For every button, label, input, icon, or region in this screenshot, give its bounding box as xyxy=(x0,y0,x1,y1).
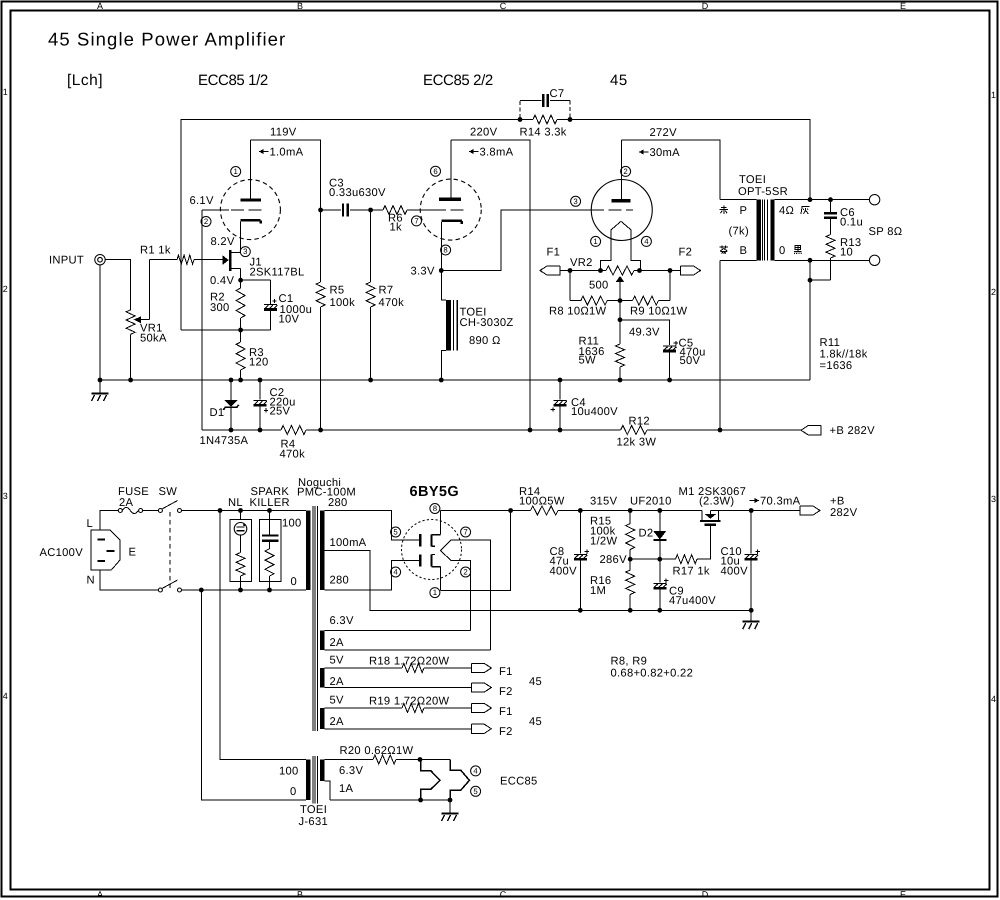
wire heater top xyxy=(420,759,450,761)
svg-text:8: 8 xyxy=(443,246,447,255)
ECC85 heater inner chevron xyxy=(421,760,440,801)
wire input jack to VR1 top xyxy=(105,260,130,310)
neon lamp NL box xyxy=(240,511,242,520)
svg-text:P: P xyxy=(740,205,748,217)
svg-text:100k: 100k xyxy=(330,297,356,309)
transformer T2 6.3V winding xyxy=(320,631,324,651)
label cha B (brown primary lead) xyxy=(720,246,729,248)
svg-text:=1636: =1636 xyxy=(820,360,853,372)
svg-text:300: 300 xyxy=(210,302,230,314)
wire rail C8 to R15 xyxy=(580,510,630,512)
svg-text:F1: F1 xyxy=(547,247,561,259)
wire V2 cathode to V3 grid xyxy=(441,210,591,271)
transformer T2 5V winding 2 xyxy=(320,708,324,729)
wire N bus xyxy=(182,589,306,591)
junction R13 loop xyxy=(808,278,813,283)
svg-text:1.0mA: 1.0mA xyxy=(270,147,304,159)
svg-text:R8, R9: R8, R9 xyxy=(611,656,648,668)
junction VR2 right xyxy=(637,268,642,273)
pin 1 of V3 xyxy=(591,236,601,246)
junction NFB-R14 left xyxy=(518,117,523,122)
svg-text:R17 1k: R17 1k xyxy=(673,566,710,578)
junction D2 top xyxy=(657,508,662,513)
resistor R7 470k xyxy=(370,210,372,282)
transformer T3 J-631 primary xyxy=(306,760,311,801)
svg-text:F2: F2 xyxy=(499,686,513,698)
svg-text:SW: SW xyxy=(159,486,178,498)
svg-text:8: 8 xyxy=(433,504,437,513)
pin 6 of V2 xyxy=(431,166,441,176)
resistor R15 100k xyxy=(629,511,631,524)
svg-text:49.3V: 49.3V xyxy=(629,327,660,339)
tube V4 lower anode xyxy=(419,555,421,567)
resistor R3 120 xyxy=(240,330,242,342)
svg-text:F1: F1 xyxy=(499,666,513,678)
pin 8 of V2 xyxy=(441,245,451,255)
svg-text:3: 3 xyxy=(243,247,247,256)
junction SK top xyxy=(267,508,272,513)
svg-text:CH-3030Z: CH-3030Z xyxy=(460,317,514,329)
wire pin8 lead xyxy=(440,511,442,535)
junction C5 bottom xyxy=(667,378,672,383)
svg-text:286V: 286V xyxy=(600,554,628,566)
svg-text:R19 1.72Ω20W: R19 1.72Ω20W xyxy=(369,696,450,708)
wire NFB to R2/C1 bottom xyxy=(181,329,271,331)
wire VR2 to F2 xyxy=(640,270,671,272)
svg-text:25V: 25V xyxy=(270,406,291,418)
junction C10 bottom xyxy=(749,608,754,613)
svg-text:ECC85 1/2: ECC85 1/2 xyxy=(198,72,268,89)
node 0.4V xyxy=(238,278,243,283)
wire filament left leg xyxy=(601,230,611,271)
plus mark C2 xyxy=(264,409,268,411)
svg-text:400V: 400V xyxy=(721,566,749,578)
node 286V xyxy=(628,557,633,562)
junction VR1-ground xyxy=(128,378,133,383)
svg-text:1N4735A: 1N4735A xyxy=(200,435,249,447)
svg-text:70.3mA: 70.3mA xyxy=(760,496,801,508)
svg-text:100: 100 xyxy=(279,766,299,778)
transformer T3 secondary xyxy=(320,760,324,782)
svg-text:1: 1 xyxy=(433,588,437,597)
neon lamp NL xyxy=(234,523,247,536)
svg-text:282V: 282V xyxy=(830,507,858,519)
wire source node to C1 xyxy=(241,279,271,281)
capacitor C3 0.33u xyxy=(321,209,341,211)
wire N feed to J631 xyxy=(201,590,305,800)
svg-text:R11: R11 xyxy=(820,337,841,349)
NFB wire left vertical xyxy=(181,120,520,331)
svg-text:30mA: 30mA xyxy=(650,147,681,159)
svg-text:E: E xyxy=(900,1,906,11)
svg-text:45: 45 xyxy=(610,72,628,89)
svg-text:3: 3 xyxy=(3,491,8,501)
resistor R9 10ohm xyxy=(620,300,633,302)
wire HV bottom tap to pin4 xyxy=(324,560,420,590)
svg-text:J-631: J-631 xyxy=(299,816,329,828)
tube V2 plate xyxy=(439,198,461,201)
svg-text:C: C xyxy=(500,1,507,11)
tube V1 grid xyxy=(202,209,229,211)
wire fuse to switch xyxy=(143,510,159,512)
junction C2 bottom xyxy=(258,428,263,433)
svg-text:7: 7 xyxy=(414,217,418,226)
ground symbol PSU xyxy=(750,610,752,621)
svg-text:272V: 272V xyxy=(650,127,678,139)
svg-text:2: 2 xyxy=(204,217,208,226)
junction pin1-pin8 xyxy=(508,508,513,513)
svg-text:6: 6 xyxy=(433,167,437,176)
AC inlet body xyxy=(91,530,120,570)
svg-text:50kA: 50kA xyxy=(140,333,167,345)
junction C10 top xyxy=(749,508,754,513)
diode D2 UF2010 xyxy=(659,511,661,532)
svg-text:+B 282V: +B 282V xyxy=(830,425,876,437)
capacitor C6 0.1u xyxy=(830,200,832,213)
current arrow 3.8mA xyxy=(469,151,479,153)
flag F1 (top) xyxy=(540,266,560,275)
svg-text:6.3V: 6.3V xyxy=(330,615,354,627)
wire input jack ground xyxy=(99,265,101,380)
potentiometer VR1 xyxy=(126,310,135,335)
resistor R5 100k xyxy=(320,210,322,282)
svg-text:0.4V: 0.4V xyxy=(210,275,234,287)
junction plate node C3 xyxy=(318,208,323,213)
tube V1 plate xyxy=(240,198,261,201)
svg-text:8.2V: 8.2V xyxy=(211,236,235,248)
wire node to C5 xyxy=(620,320,670,345)
resistor R6 1k xyxy=(383,206,407,215)
svg-text:47u400V: 47u400V xyxy=(669,595,716,607)
svg-text:10u400V: 10u400V xyxy=(571,406,618,418)
capacitor C1 1000u xyxy=(270,280,272,304)
tube V3 45 envelope xyxy=(591,180,652,241)
fuse F 2A xyxy=(118,509,122,513)
svg-text:6BY5G: 6BY5G xyxy=(410,484,460,500)
resistor R12 12k 3W xyxy=(621,426,647,435)
junction sec bottom tap xyxy=(808,258,813,263)
junction OPT B+ node xyxy=(718,428,723,433)
flag +B 282V (amp) xyxy=(801,426,821,435)
pin 7 of V2 xyxy=(412,216,422,226)
svg-text:1: 1 xyxy=(234,167,238,176)
resistor R11 1636 xyxy=(619,320,621,344)
svg-text:R18 1.72Ω20W: R18 1.72Ω20W xyxy=(369,656,450,668)
junction 220V dropper bottom xyxy=(528,428,533,433)
resistor R13 10 xyxy=(826,235,835,259)
svg-text:3.8mA: 3.8mA xyxy=(480,147,514,159)
svg-text:4: 4 xyxy=(991,694,996,704)
svg-text:1k: 1k xyxy=(390,222,403,234)
svg-text:0: 0 xyxy=(779,245,786,257)
svg-text:2A: 2A xyxy=(330,637,345,649)
svg-text:6.1V: 6.1V xyxy=(190,195,214,207)
plus mark C9 xyxy=(664,580,668,582)
svg-text:0: 0 xyxy=(291,576,298,588)
svg-text:10V: 10V xyxy=(279,314,300,326)
svg-text:E: E xyxy=(900,890,906,900)
capacitor C9 47u xyxy=(659,559,661,582)
svg-text:2: 2 xyxy=(623,167,627,176)
wire center node down xyxy=(619,301,621,320)
junction VR2 left xyxy=(598,268,603,273)
resistor R4 470k xyxy=(281,426,306,435)
svg-text:280: 280 xyxy=(330,575,350,587)
resistor R14 3.3k (NFB) xyxy=(533,115,557,124)
pin 2 of V4 xyxy=(461,567,471,577)
capacitor C8 47u xyxy=(579,511,581,554)
potentiometer VR2 500 xyxy=(606,266,634,275)
svg-text:R8 10Ω1W: R8 10Ω1W xyxy=(549,306,607,318)
pin 3 of V1 xyxy=(240,247,250,257)
junction D1 top xyxy=(229,378,234,383)
transformer T2 core xyxy=(312,506,314,731)
wire L bus xyxy=(182,510,306,512)
plus mark C1 xyxy=(272,300,276,302)
ground symbol at input xyxy=(99,380,101,394)
wire M1 to C10 xyxy=(710,510,751,512)
svg-text:+B: +B xyxy=(830,496,845,508)
svg-text:45: 45 xyxy=(529,716,542,728)
svg-text:R1 1k: R1 1k xyxy=(140,245,171,257)
wire 286V node xyxy=(630,558,660,560)
svg-text:D1: D1 xyxy=(210,407,225,419)
flag F2 psu 2 xyxy=(471,724,491,733)
svg-text:NL: NL xyxy=(228,497,243,509)
pin 4 of V3 xyxy=(641,236,651,246)
junction C8 top xyxy=(578,508,583,513)
svg-text:F1: F1 xyxy=(499,706,513,718)
terminal SP minus xyxy=(869,255,879,265)
input jack J xyxy=(95,255,105,265)
svg-text:2A: 2A xyxy=(119,497,134,509)
junction C3-R6-R7 xyxy=(368,208,373,213)
resistor R2 300 xyxy=(240,280,242,288)
svg-text:R9 10Ω1W: R9 10Ω1W xyxy=(630,306,688,318)
tube V1 ECC85 1/2 envelope xyxy=(220,180,280,240)
AC inlet pin L xyxy=(98,539,106,541)
tube V3 plate xyxy=(611,199,630,202)
svg-text:TOEI: TOEI xyxy=(739,174,766,186)
svg-text:TOEI: TOEI xyxy=(300,804,327,816)
flag F1 psu 2 xyxy=(471,703,491,712)
plus mark C4 xyxy=(551,409,555,411)
wire R13 loop xyxy=(809,260,811,280)
label aka P (red primary lead) xyxy=(721,206,727,208)
tube V4 6BY5G envelope xyxy=(402,520,462,580)
wire 5V-2 bottom tap xyxy=(324,728,471,730)
switch link dashed xyxy=(169,512,171,588)
junction R15 top xyxy=(628,508,633,513)
capacitor C2 220u xyxy=(259,380,261,400)
junction NFB-R14 right xyxy=(568,117,573,122)
svg-text:B: B xyxy=(297,1,303,11)
wire L feed to J631 xyxy=(220,511,306,760)
svg-text:0.1u: 0.1u xyxy=(840,217,863,229)
wire plate V3 to OPT xyxy=(621,140,720,200)
resistor R19 1.72ohm xyxy=(324,707,402,709)
wire heater bottom xyxy=(330,799,450,801)
wire pin8 to R14 xyxy=(441,510,531,512)
junction C8 bottom xyxy=(578,608,583,613)
ECC85 heater outer chevron xyxy=(450,760,469,801)
svg-text:0: 0 xyxy=(290,786,297,798)
AC inlet pin N xyxy=(98,560,106,562)
junction F1 node xyxy=(568,268,573,273)
junction heater bottom outer xyxy=(448,798,453,803)
capacitor C5 470u xyxy=(663,345,676,347)
svg-text:470k: 470k xyxy=(280,449,306,461)
svg-text:AC100V: AC100V xyxy=(40,547,84,559)
choke CH-3030Z winding xyxy=(446,300,451,350)
B+ rail wire mid xyxy=(321,429,621,431)
spark killer capacitor xyxy=(269,520,271,535)
junction R3 bottom xyxy=(238,378,243,383)
current arrow 70.3mA xyxy=(750,500,760,502)
flag F1 psu 1 xyxy=(471,663,491,672)
svg-text:315V: 315V xyxy=(590,496,618,508)
svg-text:F2: F2 xyxy=(499,726,513,738)
junction choke bottom xyxy=(439,378,444,383)
junction C6 top xyxy=(828,197,833,202)
junction R20 right xyxy=(418,757,423,762)
tube V2 grid xyxy=(433,209,467,211)
svg-text:VR2: VR2 xyxy=(570,257,593,269)
svg-text:1: 1 xyxy=(991,90,996,100)
wire rail R15 to D2 xyxy=(630,510,660,512)
svg-text:4Ω: 4Ω xyxy=(779,205,794,217)
svg-text:2SK117BL: 2SK117BL xyxy=(250,267,305,279)
junction D1 bottom xyxy=(229,428,234,433)
ground bus wire xyxy=(100,379,810,381)
neon lamp NL resistor xyxy=(236,553,245,577)
svg-text:3: 3 xyxy=(573,197,577,206)
svg-text:4: 4 xyxy=(473,767,478,776)
svg-text:D: D xyxy=(702,890,709,900)
svg-text:D: D xyxy=(702,1,709,11)
pin 4 of V4 xyxy=(391,567,401,577)
svg-text:220V: 220V xyxy=(470,127,498,139)
tube V4 heater xyxy=(441,540,452,561)
svg-text:[Lch]: [Lch] xyxy=(67,72,103,89)
svg-text:12k 3W: 12k 3W xyxy=(617,437,657,449)
tube V2 cathode xyxy=(441,220,462,223)
terminal SP plus xyxy=(869,195,879,205)
junction C4 bottom xyxy=(558,428,563,433)
zener diode D1 xyxy=(230,380,232,400)
svg-text:A: A xyxy=(97,890,103,900)
capacitor C10 10u xyxy=(750,511,752,554)
svg-text:119V: 119V xyxy=(270,127,297,139)
svg-text:5: 5 xyxy=(473,787,478,796)
svg-text:280: 280 xyxy=(328,497,348,509)
wire OPT primary bottom to B+ xyxy=(719,260,721,430)
svg-text:R12: R12 xyxy=(629,416,650,428)
svg-text:4: 4 xyxy=(644,237,649,246)
svg-text:120: 120 xyxy=(249,357,269,369)
wire pin1 to junction xyxy=(441,511,511,591)
transistor M1 2SK3067 xyxy=(701,511,703,521)
node 3.3V xyxy=(439,268,444,273)
svg-text:R7: R7 xyxy=(379,285,394,297)
svg-text:2: 2 xyxy=(463,568,467,577)
resistor R1 xyxy=(149,259,177,261)
plus mark C8 xyxy=(585,551,589,553)
junction C4 top xyxy=(558,378,563,383)
svg-text:ECC85: ECC85 xyxy=(500,776,538,788)
svg-text:1.8k//18k: 1.8k//18k xyxy=(820,349,868,361)
svg-text:(2.3W): (2.3W) xyxy=(699,496,734,508)
svg-text:1: 1 xyxy=(593,237,597,246)
tube V1 cathode xyxy=(241,219,261,222)
svg-text:2: 2 xyxy=(3,284,8,294)
junction VR2 wiper node xyxy=(618,298,623,303)
AC inlet pin E xyxy=(106,550,114,552)
junction R7 bottom xyxy=(368,378,373,383)
svg-text:100: 100 xyxy=(282,518,302,530)
current arrow 30mA xyxy=(639,151,649,153)
switch SW upper xyxy=(158,509,162,513)
svg-text:4: 4 xyxy=(3,691,8,701)
wire grid bias vertical xyxy=(201,210,203,430)
svg-text:100mA: 100mA xyxy=(330,537,367,549)
svg-text:C7: C7 xyxy=(550,88,565,100)
svg-text:0.68+0.82+0.22: 0.68+0.82+0.22 xyxy=(611,668,694,680)
junction 49.3V node xyxy=(618,317,623,322)
svg-text:1M: 1M xyxy=(590,585,606,597)
svg-text:F2: F2 xyxy=(679,247,693,259)
transformer T1 OPT-5SR primary xyxy=(720,199,756,201)
wire V1 cathode to J1 drain xyxy=(240,222,242,253)
pin 2 of V3 xyxy=(621,166,631,176)
resistor R20 0.62ohm xyxy=(324,759,373,761)
wire HV center tap xyxy=(324,551,751,611)
capacitor C4 10u xyxy=(559,380,561,400)
svg-text:A: A xyxy=(97,1,103,11)
junction D2 bottom xyxy=(657,557,662,562)
tube V4 upper cathode xyxy=(431,535,433,547)
svg-text:ECC85 2/2: ECC85 2/2 xyxy=(423,72,493,89)
pin 5 of V4 xyxy=(391,527,401,537)
B+ rail wire left xyxy=(202,429,281,431)
tube V4 upper anode xyxy=(419,534,421,546)
svg-text:N: N xyxy=(87,575,95,587)
junction R4-R5 xyxy=(318,428,323,433)
wire rail D2 to M1 xyxy=(660,510,702,512)
svg-text:10: 10 xyxy=(840,247,853,259)
svg-text:SP 8Ω: SP 8Ω xyxy=(869,226,903,238)
wire HV top tap to pin5 xyxy=(324,511,420,541)
svg-text:B: B xyxy=(297,890,303,900)
wire plate V1 to R5 node xyxy=(250,140,320,210)
wire pin1 lead xyxy=(440,567,442,591)
transformer T2 HV winding xyxy=(320,511,324,591)
svg-text:5W: 5W xyxy=(579,355,597,367)
svg-text:INPUT: INPUT xyxy=(49,255,84,267)
svg-text:5V: 5V xyxy=(330,655,345,667)
pin 7 of V4 xyxy=(461,527,471,537)
svg-text:45: 45 xyxy=(529,676,542,688)
svg-text:1: 1 xyxy=(3,87,8,97)
choke CH-3030Z lead bottom xyxy=(441,350,446,380)
pin 3 of V3 xyxy=(571,196,581,206)
tube V3 filament xyxy=(611,221,631,230)
flag F2 (top) xyxy=(670,270,681,272)
svg-text:R14 3.3k: R14 3.3k xyxy=(520,127,567,139)
pin 1 of V1 xyxy=(231,167,241,177)
wire L to fuse xyxy=(100,511,118,531)
svg-text:OPT-5SR: OPT-5SR xyxy=(738,186,788,198)
